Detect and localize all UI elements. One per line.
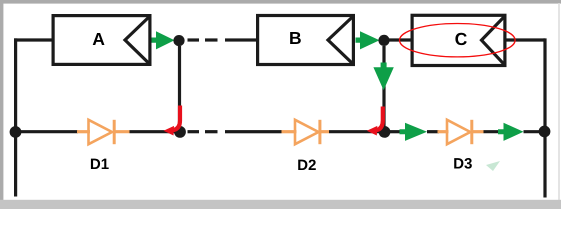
wire: bottom rail D2 to junction 2 [329,130,384,133]
wire: top-left horizontal into box A [14,38,52,41]
diode D2 leads [282,130,297,133]
frame border bottom [0,200,561,209]
wire: right vertical rail [543,38,546,197]
label D2 [298,160,307,170]
wire: bottom rail left segment [14,130,78,133]
box B chevron [328,16,353,64]
green arrow on bottom rail after junction 2 [400,123,428,141]
wire: dashed segment A to B [188,38,200,41]
diode D1 cathode bar [113,120,116,144]
node: bottom-left corner junction [10,126,22,138]
frame border right [558,3,560,200]
red current arrow at junction 1 [172,106,181,131]
label C [455,33,466,45]
box C [412,15,505,65]
label B [290,32,301,44]
box B [258,16,354,65]
wire: green arrow to right junction [524,130,546,133]
wire: D3 to second green arrow [484,130,501,133]
diode D3 leads [438,130,449,133]
box C chevron [482,16,506,65]
wire: branch down from B output [382,46,385,128]
wire: bottom rail D1 to junction1 [130,130,181,133]
node: dot at B output [378,35,389,46]
label A [93,33,105,45]
diode D2 cathode bar [318,120,321,144]
diode D3 triangle [447,120,470,144]
node: bottom junction 2 [379,126,391,138]
diode D1 leads [77,130,90,133]
stray green artifact near D3 [486,161,500,171]
diode D2 triangle [295,120,319,144]
node: bottom junction 1 [174,126,186,138]
green arrow after A [152,31,175,49]
wire: bottom dashed segment [188,130,200,133]
green arrow on bottom rail before right junction [498,123,524,141]
frame border top [0,0,561,4]
frame border left [0,0,3,200]
diode D1 triangle [89,120,113,144]
green down arrow on B branch [373,63,393,91]
wire: left vertical rail [14,38,17,196]
label D3 [454,158,463,168]
wire: branch down from A output [178,46,181,128]
node: bottom right junction [539,126,551,138]
wire: dot to box C [389,38,412,41]
box A [53,16,150,65]
diode D3 cathode bar [470,120,473,144]
wire: box C output to right rail [507,38,546,41]
label D1 [91,159,100,169]
wire: junction 2 to green arrow [389,130,402,133]
red ellipse annotation around C [400,24,516,57]
red current arrow at junction 2 [375,107,383,131]
box A chevron [125,16,150,64]
wire: green arrow to D3 [427,130,439,133]
node: dot at A output [173,35,184,46]
green arrow after B [356,31,380,49]
